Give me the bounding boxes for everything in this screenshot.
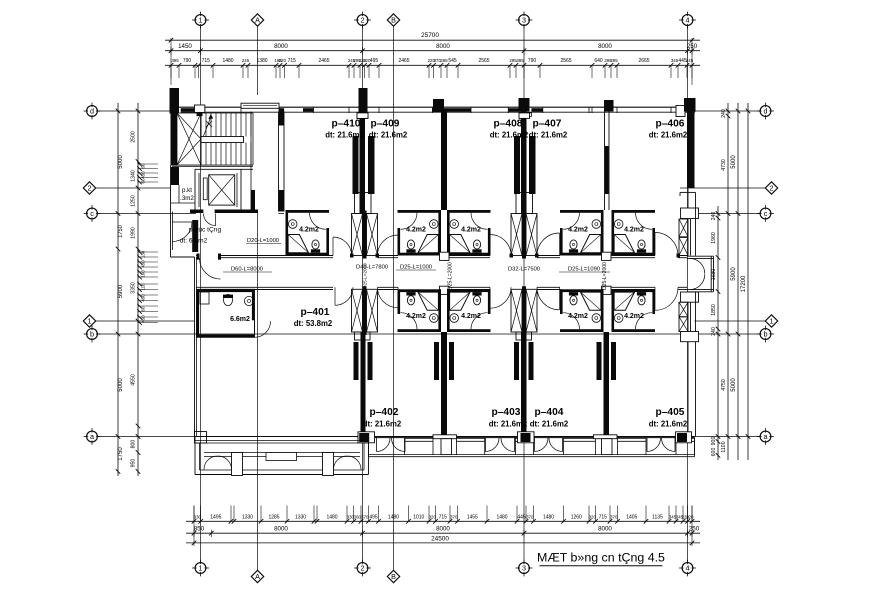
- svg-text:130: 130: [141, 250, 146, 258]
- svg-text:p–410: p–410: [332, 119, 361, 130]
- bottom overall dimension 24500: [186, 542, 700, 544]
- column top-left grid 1: [170, 88, 180, 114]
- svg-text:250: 250: [687, 43, 698, 50]
- wardrobe bars p-409: [368, 136, 375, 194]
- svg-text:4.2m2: 4.2m2: [568, 227, 588, 234]
- svg-text:b: b: [90, 330, 94, 339]
- bottom facade sill lines: [369, 454, 695, 456]
- svg-text:dt: 21.6m2: dt: 21.6m2: [649, 131, 688, 140]
- white column box mid-wall 2 corridor bottom: [602, 286, 612, 294]
- svg-text:dt: 21.6m2: dt: 21.6m2: [529, 131, 568, 140]
- bottom segment dimensions: [186, 532, 700, 534]
- window bay above stair: [241, 103, 279, 108]
- shaft box grid 3 upper: [516, 193, 523, 214]
- svg-text:790: 790: [528, 58, 537, 64]
- svg-text:d: d: [90, 107, 94, 116]
- svg-text:160: 160: [141, 270, 146, 278]
- axis a line: [97, 436, 760, 438]
- column stub top mid-wall 2: [604, 100, 614, 112]
- svg-text:p–409: p–409: [371, 119, 400, 130]
- grid bubble a right: [760, 431, 771, 442]
- exterior wall top black infill segments: [181, 108, 205, 112]
- elevator shaft walls: [194, 169, 196, 211]
- wardrobe bar p-404 left: [529, 342, 534, 380]
- svg-text:2565: 2565: [478, 58, 489, 64]
- svg-text:5900: 5900: [118, 284, 124, 298]
- svg-text:dt: 21.6m2: dt: 21.6m2: [363, 420, 402, 429]
- white column box mid-wall 1 corridor top: [440, 252, 450, 260]
- grid line 1: [200, 26, 202, 563]
- porch outline: [194, 437, 196, 475]
- svg-text:1480: 1480: [222, 58, 233, 64]
- column right wall axis b: [681, 332, 699, 342]
- bathroom pod p-406: [612, 210, 656, 213]
- corridor left door arc: [200, 258, 221, 279]
- white column box right wall below entry: [681, 292, 699, 302]
- svg-text:p–403: p–403: [492, 407, 521, 418]
- svg-text:a: a: [90, 432, 94, 441]
- wardrobe bar p-402 left: [368, 342, 373, 380]
- corridor left door jambs: [197, 254, 200, 260]
- party wall grid 3 lower: [521, 332, 527, 437]
- svg-text:1450: 1450: [178, 43, 192, 50]
- grid bubble d right: [760, 106, 771, 117]
- right second dimension chain: [737, 103, 739, 460]
- axis c line: [97, 213, 196, 215]
- svg-text:5000: 5000: [731, 155, 737, 169]
- lobby wall black segment: [192, 220, 198, 252]
- bottom facade window segments: [405, 437, 434, 439]
- grid bubble 2 right: [765, 182, 777, 194]
- stair handrail: [201, 137, 244, 143]
- grid line 3: [523, 26, 525, 563]
- svg-text:250: 250: [689, 526, 700, 533]
- svg-text:8000: 8000: [598, 43, 612, 50]
- svg-text:4.2m2: 4.2m2: [624, 313, 644, 320]
- svg-text:24500: 24500: [431, 536, 449, 543]
- svg-text:A: A: [255, 16, 260, 25]
- svg-text:370: 370: [610, 515, 618, 520]
- svg-text:2565: 2565: [560, 58, 571, 64]
- svg-text:495: 495: [370, 58, 379, 64]
- svg-text:p.trùc tÇng: p.trùc tÇng: [189, 227, 222, 234]
- svg-text:1480: 1480: [388, 515, 399, 521]
- right overall dimension 17200: [747, 103, 749, 460]
- left middle dimension chain: [137, 103, 139, 476]
- white column box grid 4: [676, 106, 685, 117]
- svg-text:p–402: p–402: [370, 407, 399, 418]
- column bottom grid 4: [676, 432, 692, 443]
- shaft box grid 3 lower: [516, 332, 532, 340]
- bathroom pod p-407: [560, 210, 604, 213]
- shaft grid 3 upper: [511, 214, 522, 256]
- party wall grid 3 upper: [521, 112, 527, 214]
- grid bubble 4 bottom: [682, 563, 693, 574]
- grid line B: [393, 26, 395, 571]
- column bottom grid 3: [518, 432, 535, 443]
- svg-text:850: 850: [194, 526, 205, 533]
- svg-text:1250: 1250: [131, 195, 137, 207]
- svg-text:4.2m2: 4.2m2: [406, 227, 426, 234]
- wardrobe bar p-403 right: [514, 342, 519, 380]
- svg-text:450: 450: [141, 260, 146, 268]
- grid bubble b left: [87, 329, 98, 340]
- party wall grid 2 upper: [360, 112, 366, 214]
- pier bottom 2: [594, 435, 618, 439]
- column bottom grid 2: [358, 432, 375, 443]
- wardrobe bars p-410: [353, 136, 359, 194]
- white column box below wall grid 2: [357, 113, 368, 119]
- svg-text:8000: 8000: [274, 43, 288, 50]
- svg-text:495: 495: [369, 515, 378, 521]
- svg-text:640: 640: [594, 58, 603, 64]
- axis 2 line: [96, 187, 171, 189]
- balcony door p-403: [485, 438, 487, 452]
- svg-text:110: 110: [141, 283, 146, 291]
- svg-text:p–405: p–405: [656, 407, 685, 418]
- party wall mid-2 lower: [604, 332, 610, 437]
- svg-text:1750: 1750: [118, 225, 124, 237]
- svg-text:2465: 2465: [318, 58, 329, 64]
- svg-text:1850: 1850: [711, 304, 717, 316]
- grid bubble 2 left: [83, 182, 95, 194]
- door p-409: [397, 235, 399, 256]
- svg-text:445: 445: [517, 515, 526, 521]
- grid line 2: [362, 26, 364, 563]
- shaft box grid 2 upper: [355, 193, 362, 214]
- svg-text:450: 450: [141, 171, 146, 179]
- svg-text:220: 220: [686, 515, 694, 520]
- lobby inner door: [215, 214, 217, 227]
- svg-text:370: 370: [361, 515, 369, 520]
- grid bubble 3 top: [519, 15, 530, 26]
- shaft strip right of elevator: [250, 112, 252, 212]
- left fine tick cluster A: [138, 163, 159, 165]
- grid bubble 1 top: [195, 15, 206, 26]
- svg-text:370: 370: [450, 515, 458, 520]
- grid bubble 2 top: [357, 15, 368, 26]
- door p-410: [332, 237, 334, 256]
- left exterior wall lower: [194, 257, 196, 437]
- wardrobe bar p-402 right: [434, 342, 439, 380]
- svg-text:245: 245: [686, 58, 694, 63]
- door p-405: [654, 287, 656, 310]
- svg-text:240: 240: [711, 212, 717, 221]
- grid bubble d left: [87, 106, 98, 117]
- shaft grid 4 lower: [679, 302, 688, 317]
- svg-text:17200: 17200: [741, 275, 747, 292]
- svg-text:2: 2: [88, 184, 92, 193]
- door p-401: [334, 287, 336, 305]
- svg-text:4.2m2: 4.2m2: [299, 227, 319, 234]
- svg-text:b: b: [764, 330, 768, 339]
- right wall lines at lower shaft: [690, 302, 692, 331]
- svg-text:8000: 8000: [436, 526, 450, 533]
- porch door arcs left: [204, 456, 218, 470]
- balcony door p-404: [534, 438, 536, 452]
- white column box mid-wall 2 corridor top: [602, 252, 612, 260]
- door p-403: [489, 287, 491, 308]
- svg-text:1340: 1340: [131, 170, 137, 182]
- elevator door: [203, 178, 207, 200]
- svg-text:1455: 1455: [467, 515, 478, 521]
- svg-text:1135: 1135: [652, 515, 663, 521]
- svg-text:6.6m2: 6.6m2: [230, 316, 250, 323]
- bathroom pod p-409: [398, 210, 442, 213]
- svg-text:D40-L=7800: D40-L=7800: [356, 265, 388, 271]
- porch pier 2: [323, 453, 334, 476]
- svg-text:1750: 1750: [118, 447, 124, 461]
- svg-text:a: a: [764, 432, 768, 441]
- stair landing with diagonals: [177, 113, 201, 165]
- svg-text:715: 715: [439, 515, 448, 521]
- svg-text:dt: 21.6m2: dt: 21.6m2: [490, 131, 529, 140]
- svg-text:1330: 1330: [295, 515, 306, 521]
- left exterior wall upper: [170, 166, 172, 258]
- door p-402: [397, 287, 399, 308]
- svg-text:450: 450: [141, 294, 146, 302]
- right wall lines at shaft: [690, 219, 692, 256]
- party wall mid-1 lower: [441, 332, 447, 437]
- column top grid 4: [684, 98, 696, 112]
- grid bubble a left: [87, 431, 98, 442]
- svg-text:D60-L=8000: D60-L=8000: [231, 267, 263, 273]
- grid bubble A top: [251, 14, 263, 26]
- right wall notch: [680, 191, 696, 193]
- svg-text:900: 900: [711, 437, 717, 446]
- bottom fine dimension chain: [186, 520, 700, 522]
- porch door arcs right: [334, 456, 348, 470]
- svg-text:4: 4: [686, 564, 690, 573]
- left fine tick cluster C: [138, 283, 159, 285]
- svg-text:320: 320: [589, 515, 597, 520]
- svg-text:60: 60: [141, 178, 146, 183]
- shaft grid 2 lower: [352, 289, 363, 332]
- elevator car: [209, 175, 235, 205]
- svg-text:1480: 1480: [496, 515, 507, 521]
- svg-text:B: B: [391, 16, 396, 25]
- party wall mid-1 upper: [441, 112, 447, 211]
- svg-text:2500: 2500: [131, 131, 137, 143]
- svg-text:2665: 2665: [638, 58, 649, 64]
- stair up arrow: [204, 117, 212, 137]
- grid bubble 4 top: [682, 15, 693, 26]
- svg-text:8000: 8000: [436, 43, 450, 50]
- svg-text:p–407: p–407: [533, 119, 562, 130]
- wardrobe bars p-408: [514, 136, 520, 194]
- svg-text:4.2m2: 4.2m2: [406, 313, 426, 320]
- svg-text:c: c: [90, 209, 94, 218]
- column stub top mid-wall 1: [433, 99, 444, 112]
- svg-text:240: 240: [711, 327, 717, 336]
- svg-text:4.2m2: 4.2m2: [568, 313, 588, 320]
- shaft grid 3 lower: [511, 289, 522, 332]
- svg-text:295: 295: [440, 58, 448, 63]
- door p-404: [559, 287, 561, 310]
- pier bottom 1: [433, 435, 457, 439]
- svg-text:dt: 21.6m2: dt: 21.6m2: [325, 131, 364, 140]
- svg-text:2: 2: [770, 184, 774, 193]
- grid bubble 2 bottom: [357, 563, 368, 574]
- wardrobe bar p-405 left: [611, 342, 616, 380]
- svg-text:715: 715: [202, 58, 211, 64]
- svg-text:3: 3: [522, 16, 526, 25]
- svg-text:1380: 1380: [256, 58, 267, 64]
- grid bubble c right: [760, 208, 771, 219]
- svg-text:dt: 21.6m2: dt: 21.6m2: [489, 420, 528, 429]
- svg-text:1480: 1480: [326, 515, 337, 521]
- bathroom pod p-402: [398, 289, 442, 292]
- svg-text:715: 715: [288, 58, 297, 64]
- grid bubble 1 left: [83, 315, 95, 327]
- porch pier 1: [232, 453, 243, 476]
- svg-text:3350: 3350: [131, 282, 137, 294]
- svg-text:245: 245: [242, 58, 250, 63]
- white column box grid 3 redraw: [519, 113, 530, 119]
- wall stair to p-410: [279, 213, 285, 215]
- svg-text:1: 1: [199, 564, 203, 573]
- svg-text:60: 60: [141, 163, 146, 168]
- svg-text:1010: 1010: [413, 515, 424, 521]
- column stub top grid 3: [519, 98, 530, 112]
- stair flight treads: [200, 113, 202, 137]
- wardrobe bar p-403 left: [449, 342, 454, 380]
- bathroom p-401 door: [255, 321, 271, 337]
- right entry double door: [690, 258, 705, 273]
- shaft grid 2 upper: [352, 214, 363, 256]
- left jog wall: [171, 256, 195, 258]
- svg-text:1405: 1405: [626, 515, 637, 521]
- grid bubble A bottom: [251, 570, 263, 582]
- bathroom pod p-405: [612, 289, 656, 292]
- balcony door p-402: [376, 438, 378, 452]
- svg-text:1990: 1990: [131, 227, 137, 239]
- svg-text:4.2m2: 4.2m2: [624, 227, 644, 234]
- svg-text:dt: 53.8m2: dt: 53.8m2: [294, 319, 333, 328]
- svg-text:1260: 1260: [571, 515, 582, 521]
- svg-text:4.2m2: 4.2m2: [461, 227, 481, 234]
- elevator lobby bottom wall: [190, 210, 258, 214]
- svg-text:B: B: [391, 572, 396, 581]
- grid bubble 1 bottom: [195, 563, 206, 574]
- white column box below wall grid 3: [521, 113, 531, 117]
- svg-text:D25-L=1090: D25-L=1090: [568, 267, 600, 273]
- porch center step: [266, 453, 297, 461]
- axis d line: [97, 110, 171, 112]
- svg-text:5000: 5000: [731, 378, 737, 392]
- svg-text:D32-L=7500: D32-L=7500: [508, 267, 540, 273]
- svg-text:4: 4: [686, 16, 690, 25]
- right middle dimension chain: [727, 103, 729, 460]
- shaft grid 4 upper: [679, 219, 688, 237]
- svg-text:1330: 1330: [242, 515, 253, 521]
- svg-text:4.2m2: 4.2m2: [461, 313, 481, 320]
- svg-text:395: 395: [171, 58, 179, 63]
- white column box at stair right: [195, 105, 205, 112]
- svg-text:1960: 1960: [711, 232, 717, 244]
- svg-text:2465: 2465: [398, 58, 409, 64]
- wardrobe bar p-401: [354, 342, 359, 380]
- svg-text:MÆT b»ng cn tÇng 4.5: MÆT b»ng cn tÇng 4.5: [537, 551, 665, 565]
- svg-text:p–401: p–401: [301, 307, 330, 318]
- svg-text:8000: 8000: [274, 526, 288, 533]
- svg-text:2: 2: [361, 16, 365, 25]
- svg-text:d: d: [764, 107, 768, 116]
- axis b line: [97, 333, 760, 335]
- svg-text:5000: 5000: [118, 378, 124, 392]
- svg-text:D20-L=1000: D20-L=1000: [247, 238, 279, 244]
- grid bubble B bottom: [387, 570, 399, 582]
- bathroom pod p-403: [447, 289, 491, 292]
- svg-text:4750: 4750: [721, 379, 727, 391]
- svg-text:1: 1: [88, 317, 92, 326]
- svg-text:25700: 25700: [421, 32, 439, 39]
- corridor bottom wall: [196, 286, 333, 288]
- bottom wall line: [195, 436, 695, 438]
- party wall mid-2 upper: [604, 112, 606, 211]
- svg-text:1495: 1495: [210, 515, 221, 521]
- svg-text:dt: 21.6m2: dt: 21.6m2: [369, 131, 408, 140]
- party wall grid 2 lower: [361, 332, 366, 437]
- stair enclosure right wall: [278, 112, 280, 212]
- shaft box grid 2 lower: [355, 332, 371, 340]
- svg-text:1100: 1100: [721, 441, 727, 452]
- svg-text:1: 1: [199, 16, 203, 25]
- white column box right wall axis c: [681, 208, 699, 219]
- svg-text:240: 240: [721, 109, 727, 118]
- column bottom grid 1: [195, 432, 207, 444]
- left outer dimension chain: [117, 103, 119, 476]
- svg-text:p.kt: p.kt: [182, 187, 192, 194]
- grid line 4: [687, 26, 689, 563]
- svg-text:1: 1: [770, 317, 774, 326]
- white column box mid-wall 1 corridor bottom: [440, 286, 450, 294]
- svg-text:4550: 4550: [131, 374, 137, 386]
- svg-text:D25-L=1000: D25-L=1000: [400, 265, 432, 271]
- porch top wall lines: [195, 440, 369, 442]
- svg-text:dt: 21.6m2: dt: 21.6m2: [649, 420, 688, 429]
- grid bubble 3 bottom: [519, 563, 530, 574]
- grid bubble 1 right: [765, 315, 777, 327]
- svg-text:p–404: p–404: [535, 407, 564, 418]
- exterior wall right lower: [687, 332, 689, 437]
- svg-text:1285: 1285: [268, 515, 279, 521]
- svg-text:370: 370: [526, 515, 534, 520]
- stair bottom wall: [172, 165, 253, 167]
- wardrobe bar p-404 right: [597, 342, 602, 380]
- svg-text:8000: 8000: [598, 526, 612, 533]
- top overall dimension 25700: [165, 39, 700, 41]
- svg-text:545: 545: [448, 58, 457, 64]
- svg-text:320: 320: [429, 515, 437, 520]
- svg-text:dt: 6.5m2: dt: 6.5m2: [180, 238, 208, 245]
- column top grid 2: [359, 88, 368, 113]
- corridor top wall: [196, 255, 200, 257]
- bathroom pod p-404: [560, 289, 604, 292]
- grid bubble b right: [760, 329, 771, 340]
- grid line A: [257, 26, 259, 95]
- svg-text:600: 600: [711, 448, 717, 457]
- bathroom p-401 6.6m2: [197, 289, 255, 337]
- grid bubble c left: [87, 208, 98, 219]
- grid bubble B top: [387, 14, 399, 26]
- svg-text:2: 2: [361, 564, 365, 573]
- bathroom pod p-410: [286, 210, 330, 213]
- svg-text:A: A: [255, 572, 260, 581]
- exterior wall top window mullions: [204, 107, 206, 113]
- left fine tick cluster B: [138, 251, 159, 253]
- door p-408: [489, 235, 491, 256]
